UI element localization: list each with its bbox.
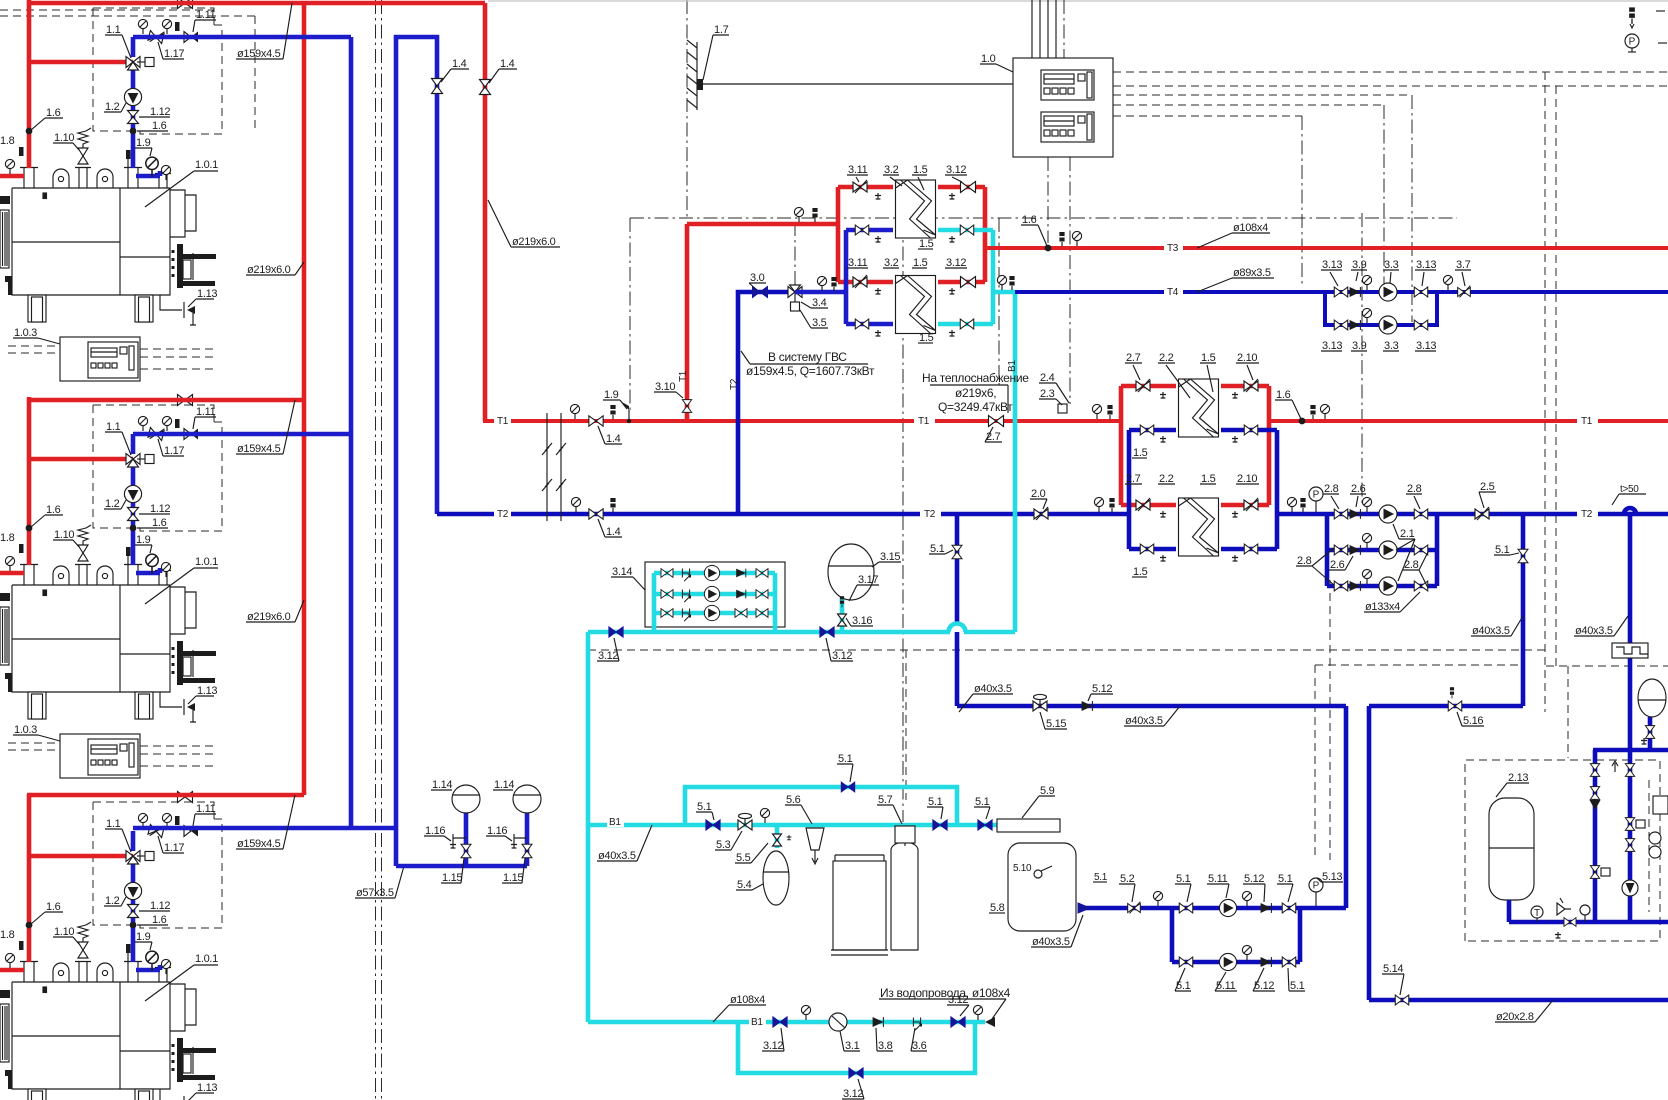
gate valve bbox=[1414, 509, 1428, 519]
svg-text:2.2: 2.2 bbox=[1159, 473, 1174, 485]
pump bbox=[1219, 953, 1236, 970]
blue boiler-1 header bbox=[133, 35, 351, 40]
controller cabinet 1.0 bbox=[1013, 58, 1113, 157]
svg-text:1.0: 1.0 bbox=[981, 53, 996, 65]
gate valve bbox=[1564, 918, 1576, 927]
valve 3.0 bbox=[753, 287, 768, 298]
svg-text:3.12: 3.12 bbox=[832, 650, 852, 662]
gate valve bbox=[961, 182, 976, 193]
shut-off valve bbox=[773, 1017, 787, 1027]
T2 gauges right bbox=[1287, 497, 1296, 512]
boiler 2 (1.0.1) bbox=[0, 395, 222, 779]
bypass over bbox=[685, 787, 957, 825]
blue boiler-3 header bbox=[133, 826, 396, 831]
red boiler-3 header bbox=[27, 793, 304, 798]
pipe: return (blue) bbox=[1624, 508, 1636, 514]
check valve bbox=[873, 1017, 884, 1027]
temperature sensor bbox=[620, 401, 631, 423]
gate valve bbox=[1395, 995, 1409, 1005]
cyan DHW outlets bbox=[938, 230, 1015, 324]
pipe: supply (red) bbox=[1267, 419, 1668, 423]
svg-text:1.16: 1.16 bbox=[425, 825, 445, 837]
pump bbox=[1379, 283, 1397, 301]
temperature sensor bbox=[840, 596, 844, 607]
upper branch fittings bbox=[1334, 287, 1348, 297]
svg-text:1.15: 1.15 bbox=[503, 872, 523, 884]
svg-text:2.8: 2.8 bbox=[1407, 483, 1422, 495]
control wiring (dashed) bbox=[1544, 72, 1546, 712]
circulation main bbox=[588, 630, 950, 635]
svg-text:5.11: 5.11 bbox=[1216, 980, 1236, 992]
svg-text:2.3: 2.3 bbox=[1040, 388, 1055, 400]
svg-text:3.1: 3.1 bbox=[845, 1040, 860, 1052]
red supply riser no.1 bbox=[302, 3, 307, 795]
svg-text:В1: В1 bbox=[609, 817, 621, 828]
gate valve bbox=[1414, 545, 1428, 555]
valve 1.4 on blue riser bbox=[432, 79, 443, 94]
gate valve bbox=[1590, 866, 1599, 879]
red feed to HX bbox=[687, 187, 893, 282]
storage tank 5.8 with lid 5.9 bbox=[997, 819, 1060, 832]
svg-text:5.1: 5.1 bbox=[838, 753, 853, 765]
svg-text:ø57x3.5: ø57x3.5 bbox=[356, 887, 394, 899]
dashed verticals mid-right bbox=[1329, 580, 1331, 860]
blue loop bbox=[1129, 430, 1277, 549]
svg-text:5.2: 5.2 bbox=[1120, 873, 1135, 885]
svg-text:ø159x4.5: ø159x4.5 bbox=[237, 838, 281, 850]
svg-text:Q=3249.47кВт: Q=3249.47кВт bbox=[938, 400, 1013, 414]
control wiring (dashed) bbox=[905, 650, 907, 800]
lower branch fittings bbox=[1334, 320, 1348, 330]
row2 bbox=[661, 590, 673, 599]
valves 5.1 after softener bbox=[933, 820, 947, 830]
svg-text:5.1: 5.1 bbox=[1176, 873, 1191, 885]
HX 2.2 lower bbox=[1179, 498, 1219, 556]
svg-text:ø159x4.5: ø159x4.5 bbox=[237, 443, 281, 455]
blue boiler-2 header bbox=[133, 432, 351, 437]
check valve bbox=[1350, 287, 1361, 297]
check valve bbox=[1082, 701, 1093, 711]
pipe break bbox=[556, 413, 566, 521]
boiler-house boundary bbox=[629, 218, 631, 414]
gate valve bbox=[1448, 701, 1462, 711]
valve 3.12 after box bbox=[820, 627, 834, 637]
blue return riser no.2 with top bridge bbox=[396, 37, 437, 866]
suction arrow to pumps bbox=[1078, 906, 1172, 911]
pipe: return (blue) bbox=[1593, 750, 1598, 922]
tank drop 1 bbox=[464, 812, 469, 866]
control wiring (dashed) bbox=[1567, 666, 1569, 758]
svg-text:3.2: 3.2 bbox=[884, 257, 899, 269]
control wiring (dashed) bbox=[1069, 157, 1071, 404]
control wiring (dashed) bbox=[1555, 86, 1557, 666]
svg-text:5.1: 5.1 bbox=[1176, 980, 1191, 992]
temperature sensor bbox=[610, 405, 615, 419]
svg-text:2.13: 2.13 bbox=[1508, 772, 1528, 784]
control wiring (dashed) bbox=[1314, 665, 1316, 858]
pressure gauge bbox=[1362, 275, 1371, 290]
drain cock bbox=[1232, 392, 1238, 398]
link wire to controller bbox=[703, 83, 1013, 85]
pipe: domestic water (cyan) bbox=[586, 632, 591, 1022]
control wiring (dashed) bbox=[794, 222, 796, 286]
svg-text:1.5: 1.5 bbox=[1201, 352, 1216, 364]
svg-text:1.4: 1.4 bbox=[606, 526, 621, 538]
svg-text:ø40x3.5: ø40x3.5 bbox=[598, 850, 636, 862]
control wiring (dashed) bbox=[686, 0, 688, 218]
T3 T4 mains bbox=[985, 246, 1668, 250]
svg-text:t>50: t>50 bbox=[1620, 484, 1639, 495]
boiler 3 (1.0.1) bbox=[0, 792, 222, 1100]
svg-text:ø108x4: ø108x4 bbox=[730, 994, 765, 1006]
wires up bbox=[1032, 0, 1056, 58]
control wiring (dashed) bbox=[0, 15, 255, 17]
svg-text:2.5: 2.5 bbox=[1480, 481, 1495, 493]
expansion line drop right bbox=[1628, 514, 1633, 750]
boundary dash-dot double vertical bbox=[375, 0, 377, 1100]
svg-text:Т1: Т1 bbox=[497, 416, 509, 427]
gate valve bbox=[855, 319, 869, 329]
svg-text:Т3: Т3 bbox=[1167, 243, 1179, 254]
svg-text:ø108x4: ø108x4 bbox=[1233, 222, 1268, 234]
control wiring (dashed) bbox=[1113, 104, 1384, 106]
expansion vessel 5.4 with valve 5.5 bbox=[775, 825, 780, 848]
filter 5.6 bbox=[806, 828, 824, 850]
svg-text:3.9: 3.9 bbox=[1352, 340, 1367, 352]
svg-text:5.9: 5.9 bbox=[1040, 785, 1055, 797]
svg-text:5.5: 5.5 bbox=[736, 852, 751, 864]
gate valve bbox=[1590, 787, 1599, 800]
svg-text:3.13: 3.13 bbox=[1416, 259, 1436, 271]
blue HX cold-side feeds bbox=[795, 230, 893, 324]
tank 1.14 bbox=[513, 785, 541, 813]
balancing valve bbox=[1458, 286, 1471, 298]
svg-text:5.1: 5.1 bbox=[930, 543, 945, 555]
pressure gauge bbox=[1242, 945, 1251, 960]
check valve bbox=[1261, 903, 1272, 913]
svg-text:3.17: 3.17 bbox=[858, 574, 878, 586]
svg-text:5.1: 5.1 bbox=[1278, 873, 1293, 885]
svg-text:5.6: 5.6 bbox=[786, 794, 801, 806]
svg-text:Т2: Т2 bbox=[924, 509, 936, 520]
svg-text:5.12: 5.12 bbox=[1092, 683, 1112, 695]
pipe: domestic water (cyan) bbox=[964, 630, 1015, 635]
svg-text:3.11: 3.11 bbox=[848, 164, 868, 176]
svg-text:5.16: 5.16 bbox=[1463, 715, 1483, 727]
expansion vessel 3.15 bbox=[840, 598, 845, 632]
svg-text:1.5: 1.5 bbox=[1133, 566, 1148, 578]
pressure gauge bbox=[1362, 569, 1371, 584]
svg-text:Т1: Т1 bbox=[678, 370, 689, 382]
svg-text:5.7: 5.7 bbox=[878, 794, 893, 806]
svg-text:ø40x3.5: ø40x3.5 bbox=[1472, 625, 1510, 637]
svg-text:В1: В1 bbox=[751, 1017, 763, 1028]
blue return riser no.1 bbox=[349, 37, 354, 828]
valve 1.15 bbox=[522, 844, 532, 858]
pump bbox=[1219, 899, 1236, 916]
row1 on T2 bbox=[1334, 509, 1348, 519]
svg-text:3.0: 3.0 bbox=[750, 272, 765, 284]
svg-text:ø40x3.5: ø40x3.5 bbox=[1125, 715, 1163, 727]
T1 fittings bbox=[570, 404, 579, 419]
temperature sensor bbox=[610, 498, 615, 512]
svg-text:5.8: 5.8 bbox=[990, 902, 1005, 914]
svg-text:ø40x3.5: ø40x3.5 bbox=[1575, 625, 1613, 637]
piping bbox=[1509, 900, 1668, 922]
gauges on hot feeds bbox=[817, 276, 826, 291]
pump bbox=[1379, 505, 1397, 523]
valve 1.15 bbox=[461, 844, 471, 858]
shut-off valve bbox=[841, 782, 855, 792]
control wiring (dashed) bbox=[1383, 105, 1385, 287]
svg-text:1.4: 1.4 bbox=[452, 58, 467, 70]
valve 2.5 on T2 bbox=[1475, 507, 1489, 520]
control wiring (dashed) bbox=[381, 0, 383, 1100]
svg-text:3.12: 3.12 bbox=[946, 257, 966, 269]
svg-text:ø219x6.0: ø219x6.0 bbox=[247, 264, 291, 276]
flow meter bbox=[913, 1018, 921, 1031]
pressure gauge P bbox=[1309, 878, 1323, 896]
svg-text:5.1: 5.1 bbox=[1495, 544, 1510, 556]
pressure reducing valve bbox=[1033, 694, 1047, 711]
check valve bbox=[1350, 581, 1361, 591]
svg-text:5.12: 5.12 bbox=[1244, 873, 1264, 885]
svg-text:3.14: 3.14 bbox=[612, 566, 632, 578]
svg-text:1.7: 1.7 bbox=[714, 24, 729, 36]
pressure gauge bbox=[1092, 404, 1101, 419]
temperature sensor bbox=[1450, 687, 1454, 698]
gate valve bbox=[1625, 818, 1634, 831]
control wiring (dashed) bbox=[1047, 157, 1049, 243]
svg-text:2.1: 2.1 bbox=[1400, 528, 1415, 540]
gate valve bbox=[1179, 903, 1193, 913]
svg-text:1.5: 1.5 bbox=[913, 257, 928, 269]
svg-text:2.2: 2.2 bbox=[1159, 352, 1174, 364]
water treatment dashed frame bbox=[588, 649, 1545, 651]
pressure gauge bbox=[1362, 533, 1371, 548]
control wiring (dashed) bbox=[1361, 213, 1363, 503]
sensor tap bbox=[1045, 245, 1052, 252]
svg-text:3.6: 3.6 bbox=[912, 1040, 927, 1052]
valve 3.10 bbox=[682, 400, 691, 413]
red boiler-2 header bbox=[27, 398, 304, 403]
svg-text:3.5: 3.5 bbox=[812, 317, 827, 329]
pipe: domestic water (cyan) bbox=[588, 1020, 985, 1025]
control wiring (dashed) bbox=[998, 218, 1000, 385]
gate valve bbox=[1518, 549, 1528, 563]
pressure gauge bbox=[1153, 891, 1162, 906]
salt tank bbox=[831, 855, 888, 955]
drain ticks bbox=[1160, 392, 1166, 398]
pipe: domestic water (cyan) bbox=[949, 624, 966, 633]
valves on columns bbox=[1590, 764, 1599, 777]
HX 3.2 lower bbox=[896, 276, 936, 334]
1.6 dot / sensor / gauge on T1 right bbox=[1299, 418, 1306, 425]
svg-text:ø133x4: ø133x4 bbox=[1365, 601, 1400, 613]
pressure gauge bbox=[1362, 308, 1371, 323]
control wiring (dashed) bbox=[1648, 780, 1650, 912]
pipe: return (blue) bbox=[1172, 906, 1346, 911]
row3 bbox=[1334, 581, 1348, 591]
svg-text:Т2: Т2 bbox=[729, 378, 740, 390]
red boiler-1 top header bbox=[27, 1, 485, 6]
svg-text:1.9: 1.9 bbox=[604, 389, 619, 401]
svg-text:3.2: 3.2 bbox=[884, 164, 899, 176]
svg-text:1.6: 1.6 bbox=[1276, 389, 1291, 401]
pipe: return (blue) bbox=[1628, 750, 1633, 922]
svg-text:ø219x6.0: ø219x6.0 bbox=[512, 236, 556, 248]
control wiring (dashed) bbox=[630, 217, 1457, 219]
svg-text:2.10: 2.10 bbox=[1237, 352, 1257, 364]
svg-text:3.3: 3.3 bbox=[1384, 259, 1399, 271]
pressure reducer 5.3 bbox=[738, 813, 752, 830]
balancing valve bbox=[1244, 379, 1258, 392]
svg-text:ø40x3.5: ø40x3.5 bbox=[974, 683, 1012, 695]
svg-text:3.9: 3.9 bbox=[1352, 259, 1367, 271]
svg-text:3.7: 3.7 bbox=[1456, 259, 1471, 271]
feed line B1 bbox=[588, 823, 997, 828]
svg-text:Т1: Т1 bbox=[1581, 416, 1593, 427]
svg-text:3.15: 3.15 bbox=[880, 551, 900, 563]
control wiring (dashed) bbox=[254, 16, 256, 131]
svg-text:1.5: 1.5 bbox=[1201, 473, 1216, 485]
o40x3.5 run to pump unit bbox=[957, 706, 1346, 908]
svg-text:3.10: 3.10 bbox=[655, 381, 675, 393]
control wiring (dashed) bbox=[1315, 664, 1523, 666]
gate valve bbox=[961, 277, 976, 288]
gauge+sensor on feed bbox=[794, 207, 803, 222]
svg-text:5.4: 5.4 bbox=[737, 879, 752, 891]
svg-text:1.5: 1.5 bbox=[1133, 447, 1148, 459]
svg-text:2.6: 2.6 bbox=[1351, 483, 1366, 495]
valve 2.7 on T1 bbox=[989, 416, 1004, 427]
row2 bbox=[1334, 545, 1348, 555]
svg-text:ø40x3.5: ø40x3.5 bbox=[1032, 936, 1070, 948]
svg-text:2.0: 2.0 bbox=[1031, 488, 1046, 500]
2.13 section dashed box bbox=[1465, 760, 1660, 941]
svg-text:Т4: Т4 bbox=[1167, 287, 1179, 298]
bypass loop bbox=[1325, 292, 1437, 325]
pressure gauge bbox=[1094, 497, 1103, 512]
check valve bbox=[1350, 545, 1361, 555]
T2 drop with 5.1 bbox=[1521, 514, 1526, 706]
svg-text:3.11: 3.11 bbox=[848, 257, 868, 269]
pressure gauge bbox=[973, 1005, 982, 1020]
svg-text:1.5: 1.5 bbox=[913, 164, 928, 176]
red loop bbox=[1121, 386, 1269, 505]
row3 bbox=[661, 609, 673, 618]
control wiring (dashed) bbox=[1546, 665, 1668, 667]
svg-text:ø219x6,: ø219x6, bbox=[955, 386, 996, 400]
valves 3.11 bbox=[853, 180, 867, 193]
drain cock bbox=[1641, 738, 1647, 744]
svg-text:3.13: 3.13 bbox=[1322, 340, 1342, 352]
svg-text:1.4: 1.4 bbox=[606, 433, 621, 445]
svg-text:5.10: 5.10 bbox=[1013, 863, 1032, 874]
drain cock bbox=[949, 193, 955, 199]
svg-text:5.14: 5.14 bbox=[1383, 963, 1403, 975]
svg-text:3.12: 3.12 bbox=[843, 1088, 863, 1100]
gate valve bbox=[952, 545, 962, 559]
svg-text:5.15: 5.15 bbox=[1046, 718, 1066, 730]
svg-text:3.4: 3.4 bbox=[812, 297, 827, 309]
svg-text:Т2: Т2 bbox=[1581, 509, 1593, 520]
wall anchor 1.7 bbox=[696, 42, 698, 110]
row1 bbox=[661, 569, 673, 578]
T2 return main bbox=[437, 512, 1131, 517]
pressure gauge bbox=[1362, 497, 1371, 512]
pipe: domestic water (cyan) bbox=[738, 1022, 975, 1073]
branch from T2 down bbox=[955, 514, 960, 706]
svg-text:5.1: 5.1 bbox=[697, 801, 712, 813]
pressure gauge bbox=[997, 275, 1006, 290]
membrane tank 2.13 bbox=[1489, 798, 1534, 900]
gate valve bbox=[589, 509, 603, 519]
gate valve bbox=[1282, 957, 1296, 967]
check valve bbox=[1261, 957, 1272, 967]
svg-text:3.13: 3.13 bbox=[1322, 259, 1342, 271]
balancing valve bbox=[1128, 902, 1141, 914]
valve 3.12 bbox=[609, 627, 623, 637]
control wiring (dashed) bbox=[1113, 94, 1412, 96]
control buses to pump groups bbox=[1113, 71, 1668, 73]
right segment with 5.16 to T2 drop bbox=[1369, 706, 1668, 1000]
pipe: return (blue) bbox=[1275, 512, 1668, 517]
gate valve bbox=[1625, 839, 1634, 852]
control wiring (dashed) bbox=[1301, 116, 1303, 287]
valve 5.1 bbox=[706, 820, 720, 830]
gate valve bbox=[855, 225, 869, 235]
gate valve bbox=[1282, 903, 1296, 913]
pump bbox=[1379, 316, 1397, 334]
svg-text:2.6: 2.6 bbox=[1330, 559, 1345, 571]
svg-text:2.8: 2.8 bbox=[1404, 559, 1419, 571]
pump bbox=[1379, 577, 1397, 595]
gate valve bbox=[1140, 425, 1154, 435]
svg-text:2.7: 2.7 bbox=[1126, 352, 1141, 364]
svg-text:ø89x3.5: ø89x3.5 bbox=[1233, 267, 1271, 279]
temperature sensor bbox=[1629, 7, 1635, 22]
svg-text:ø159x4.5, Q=1607.73кВт: ø159x4.5, Q=1607.73кВт bbox=[746, 364, 875, 378]
control wiring (dashed) bbox=[1063, 0, 1065, 58]
svg-text:5.1: 5.1 bbox=[1094, 872, 1108, 883]
pressure gauge bbox=[801, 1005, 810, 1020]
gate valve bbox=[1179, 957, 1193, 967]
break marks bbox=[542, 413, 552, 521]
svg-text:3.12: 3.12 bbox=[598, 650, 618, 662]
svg-text:2.7: 2.7 bbox=[1126, 473, 1141, 485]
thin sheet edge bbox=[488, 0, 1668, 2]
fitting 1.16 bbox=[514, 834, 527, 842]
svg-text:3.8: 3.8 bbox=[878, 1040, 893, 1052]
svg-text:2.8: 2.8 bbox=[1297, 555, 1312, 567]
shut-off valve bbox=[951, 1017, 965, 1027]
cut-off heater right edge bbox=[1653, 796, 1668, 814]
pressure gauge bbox=[1242, 891, 1251, 906]
gate valve bbox=[1645, 726, 1654, 739]
instruments on bottom line bbox=[1531, 906, 1543, 918]
gate valve bbox=[1244, 425, 1258, 435]
heating element on drop bbox=[1612, 643, 1648, 658]
svg-text:1.4: 1.4 bbox=[500, 58, 515, 70]
svg-text:5.11: 5.11 bbox=[1208, 873, 1228, 885]
three-way valve 3.4 bbox=[788, 285, 802, 311]
top dashed wires from boilers to controller bbox=[0, 9, 214, 11]
svg-text:3.12: 3.12 bbox=[946, 164, 966, 176]
control wiring (dashed) bbox=[902, 222, 904, 822]
gate valve bbox=[1414, 287, 1428, 297]
gate valve bbox=[1140, 544, 1154, 554]
